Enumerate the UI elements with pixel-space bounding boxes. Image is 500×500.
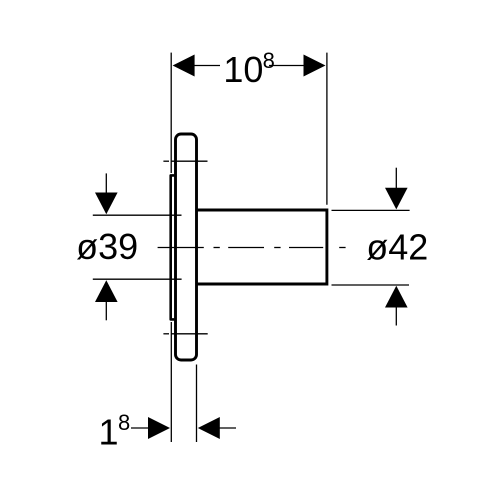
svg-text:10: 10 — [223, 49, 263, 90]
svg-text:1: 1 — [99, 412, 119, 453]
svg-text:8: 8 — [263, 48, 275, 73]
svg-text:ø39: ø39 — [76, 226, 138, 267]
svg-text:8: 8 — [118, 410, 130, 435]
svg-text:ø42: ø42 — [366, 227, 428, 268]
